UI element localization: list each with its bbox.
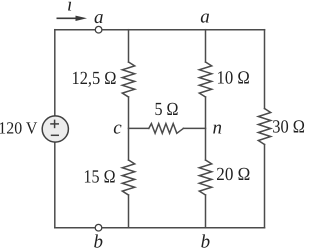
svg-text:120 V: 120 V xyxy=(0,118,38,137)
wire branch1 top xyxy=(128,30,130,62)
svg-text:n: n xyxy=(212,118,222,139)
resistor 5 Ohm zigzag xyxy=(149,124,184,134)
svg-text:b: b xyxy=(201,232,211,251)
resistor 15 Ohm zigzag xyxy=(122,160,134,195)
wire 5 Ohm to node n xyxy=(183,127,205,129)
wire bottom xyxy=(55,227,265,229)
wire branch1 bottom xyxy=(128,195,130,228)
voltage source minus sign xyxy=(51,134,59,136)
svg-text:5 Ω: 5 Ω xyxy=(155,100,179,120)
voltage source plus sign xyxy=(50,120,59,129)
svg-text:i: i xyxy=(67,0,72,16)
resistor 10 Ohm zigzag xyxy=(199,62,211,97)
wire branch2 bottom xyxy=(205,195,207,228)
svg-text:c: c xyxy=(113,118,122,139)
svg-text:b: b xyxy=(93,232,103,251)
svg-text:12,5 Ω: 12,5 Ω xyxy=(72,69,117,89)
wire right lower xyxy=(264,145,266,228)
svg-text:10 Ω: 10 Ω xyxy=(217,68,250,88)
node b terminal circle xyxy=(95,224,102,231)
wire branch2 top xyxy=(205,30,207,62)
svg-text:a: a xyxy=(200,7,210,28)
wire left lower xyxy=(54,142,56,228)
resistor 30 Ohm zigzag xyxy=(258,109,270,145)
resistor 12.5 Ohm zigzag xyxy=(122,62,134,97)
svg-text:20 Ω: 20 Ω xyxy=(216,165,250,185)
current arrow i xyxy=(57,16,88,21)
wire branch2 middle xyxy=(205,97,207,160)
resistor 20 Ohm zigzag xyxy=(199,160,211,195)
wire top xyxy=(55,29,265,31)
wire right upper xyxy=(264,30,266,109)
svg-text:15 Ω: 15 Ω xyxy=(84,167,116,187)
svg-text:30 Ω: 30 Ω xyxy=(272,117,305,137)
voltage source 120V circle xyxy=(42,116,68,142)
wire left upper xyxy=(54,30,56,117)
wire node c to 5 Ohm xyxy=(129,127,149,129)
node a terminal circle xyxy=(95,26,102,33)
svg-text:a: a xyxy=(94,7,104,28)
wire branch1 middle xyxy=(128,97,130,160)
